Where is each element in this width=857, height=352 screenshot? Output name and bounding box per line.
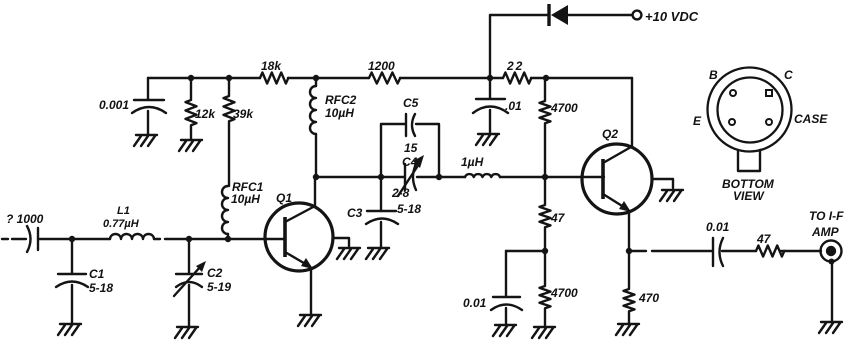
ground C2 <box>175 327 198 338</box>
capacitor .01 top bypass <box>473 80 522 134</box>
node C5 left <box>378 174 384 180</box>
node Q2 base <box>542 174 548 180</box>
node diode branch <box>487 75 493 81</box>
node 39k top <box>226 75 232 81</box>
wire Q2 collector drop <box>631 78 633 147</box>
node Q1 collector <box>313 174 319 180</box>
svg-text:5-18: 5-18 <box>397 202 421 216</box>
svg-text:22: 22 <box>506 59 524 73</box>
svg-text:47: 47 <box>550 211 566 225</box>
svg-text:TO I-F: TO I-F <box>809 209 844 223</box>
svg-text:C3: C3 <box>347 206 363 220</box>
resistor 4700 upper <box>540 78 579 177</box>
capacitor C1 5-18 <box>56 239 113 324</box>
ground Q1 case <box>337 248 360 259</box>
ground 12k <box>179 140 202 151</box>
svg-text:470: 470 <box>638 291 659 305</box>
resistor 47 mid <box>540 177 566 251</box>
ground 0.001 cap <box>134 135 157 146</box>
svg-text:5-19: 5-19 <box>207 280 231 294</box>
transistor Q2 <box>582 127 652 251</box>
resistor 47 output <box>756 232 784 257</box>
svg-text:10µH: 10µH <box>325 106 354 120</box>
socket inner ring <box>718 78 783 143</box>
svg-text:47: 47 <box>756 232 772 246</box>
svg-text:C: C <box>784 68 793 82</box>
inductor 1uH <box>461 155 500 177</box>
svg-text:1200: 1200 <box>368 59 395 73</box>
wire C5 bracket <box>381 124 439 177</box>
svg-text:10µH: 10µH <box>231 192 260 206</box>
ground output terminal <box>819 322 842 333</box>
wire 47/4700 junction to bypass cap <box>506 250 545 252</box>
svg-text:Q2: Q2 <box>602 127 618 141</box>
socket pin E <box>729 119 735 125</box>
svg-text:18k: 18k <box>261 59 282 73</box>
ground Q1 emitter <box>298 315 321 326</box>
wire output terminal drop <box>831 262 833 322</box>
resistor 1200 <box>368 59 400 84</box>
terminal TO I-F AMP output <box>809 209 844 265</box>
socket outer shell <box>708 68 792 152</box>
capacitor 0.01 lower bypass <box>463 251 522 325</box>
ground 470 <box>616 324 639 335</box>
socket tab <box>738 150 760 171</box>
wire Q1 case lead <box>333 238 349 246</box>
ground 0.01 lower bypass <box>493 325 516 336</box>
capacitor C3 5-18 <box>347 177 421 248</box>
ground Q2 case <box>660 190 683 201</box>
svg-text:12k: 12k <box>195 107 216 121</box>
svg-text:2-8: 2-8 <box>391 186 410 200</box>
svg-text:C1: C1 <box>89 267 105 281</box>
svg-text:B: B <box>709 68 718 82</box>
wire base line L1 to Q1 <box>154 238 285 240</box>
wire diode branch riser <box>490 15 632 78</box>
ground C3 <box>366 248 389 259</box>
svg-text:5-18: 5-18 <box>89 281 113 295</box>
resistor 470 <box>624 251 660 324</box>
ground 4700 lower <box>532 327 555 338</box>
svg-text:15: 15 <box>404 141 418 155</box>
diode supply protection <box>549 4 568 26</box>
inductor RFC2 10uH <box>310 78 357 177</box>
svg-text:C5: C5 <box>403 96 419 110</box>
node Q2 emitter <box>626 248 632 254</box>
svg-text:RFC2: RFC2 <box>325 93 357 107</box>
svg-text:0.01: 0.01 <box>706 220 730 234</box>
wire top supply rail <box>148 77 632 79</box>
node 12k top <box>188 75 194 81</box>
wire Q2 case lead <box>652 179 673 188</box>
resistor 18k <box>260 59 288 84</box>
socket label BOTTOM VIEW <box>722 177 775 203</box>
inductor RFC1 10uH <box>222 180 264 239</box>
node C2 <box>186 236 192 242</box>
capacitor C2 5-19 variable <box>174 239 231 327</box>
resistor 12k <box>186 78 217 140</box>
svg-text:? 1000: ? 1000 <box>6 212 44 226</box>
resistor 39k <box>224 78 255 186</box>
wire Q1 collector stub <box>314 177 316 207</box>
inductor L1 0.77uH <box>103 205 154 239</box>
socket pin C <box>766 90 772 96</box>
transistor Q1 <box>265 191 333 315</box>
node C1 <box>69 236 75 242</box>
socket pin B <box>730 90 736 96</box>
capacitor 0.001 <box>99 78 166 135</box>
svg-text:CASE: CASE <box>794 112 828 126</box>
svg-text:AMP: AMP <box>811 225 840 239</box>
ground C1 <box>58 324 81 335</box>
wire input line <box>2 238 110 240</box>
capacitor input 1000 <box>6 212 44 252</box>
resistor 4700 lower <box>540 251 579 327</box>
terminal +10 VDC <box>633 9 699 24</box>
svg-text:1µH: 1µH <box>461 155 484 169</box>
node RFC1 bottom <box>225 236 231 242</box>
svg-text:0.001: 0.001 <box>99 98 129 112</box>
svg-text:39k: 39k <box>233 107 254 121</box>
node 47 4700 junction <box>542 248 548 254</box>
svg-text:Q1: Q1 <box>276 191 292 205</box>
svg-text:VIEW: VIEW <box>733 189 765 203</box>
svg-text:L1: L1 <box>117 205 130 217</box>
svg-text:C2: C2 <box>207 266 223 280</box>
node RFC2 top <box>313 75 319 81</box>
resistor 22 <box>503 59 531 84</box>
svg-text:0.01: 0.01 <box>463 296 487 310</box>
node 4700 top <box>543 75 549 81</box>
svg-text:.01: .01 <box>505 99 522 113</box>
wire mid line (Q1 collector to Q2 base) <box>316 176 604 178</box>
svg-text:C4: C4 <box>402 155 418 169</box>
svg-text:4700: 4700 <box>550 101 578 115</box>
node C5 right <box>436 174 442 180</box>
socket pin case <box>766 119 772 125</box>
capacitor 0.01 output coupling <box>706 220 730 266</box>
capacitor C4 2-8 variable <box>391 155 424 200</box>
capacitor C5 15 <box>403 96 419 155</box>
wire output line <box>629 250 821 252</box>
svg-text:+10 VDC: +10 VDC <box>645 9 699 24</box>
svg-text:4700: 4700 <box>550 286 578 300</box>
ground .01 top bypass <box>476 134 499 145</box>
svg-text:0.77µH: 0.77µH <box>103 218 140 230</box>
svg-text:E: E <box>693 114 702 128</box>
